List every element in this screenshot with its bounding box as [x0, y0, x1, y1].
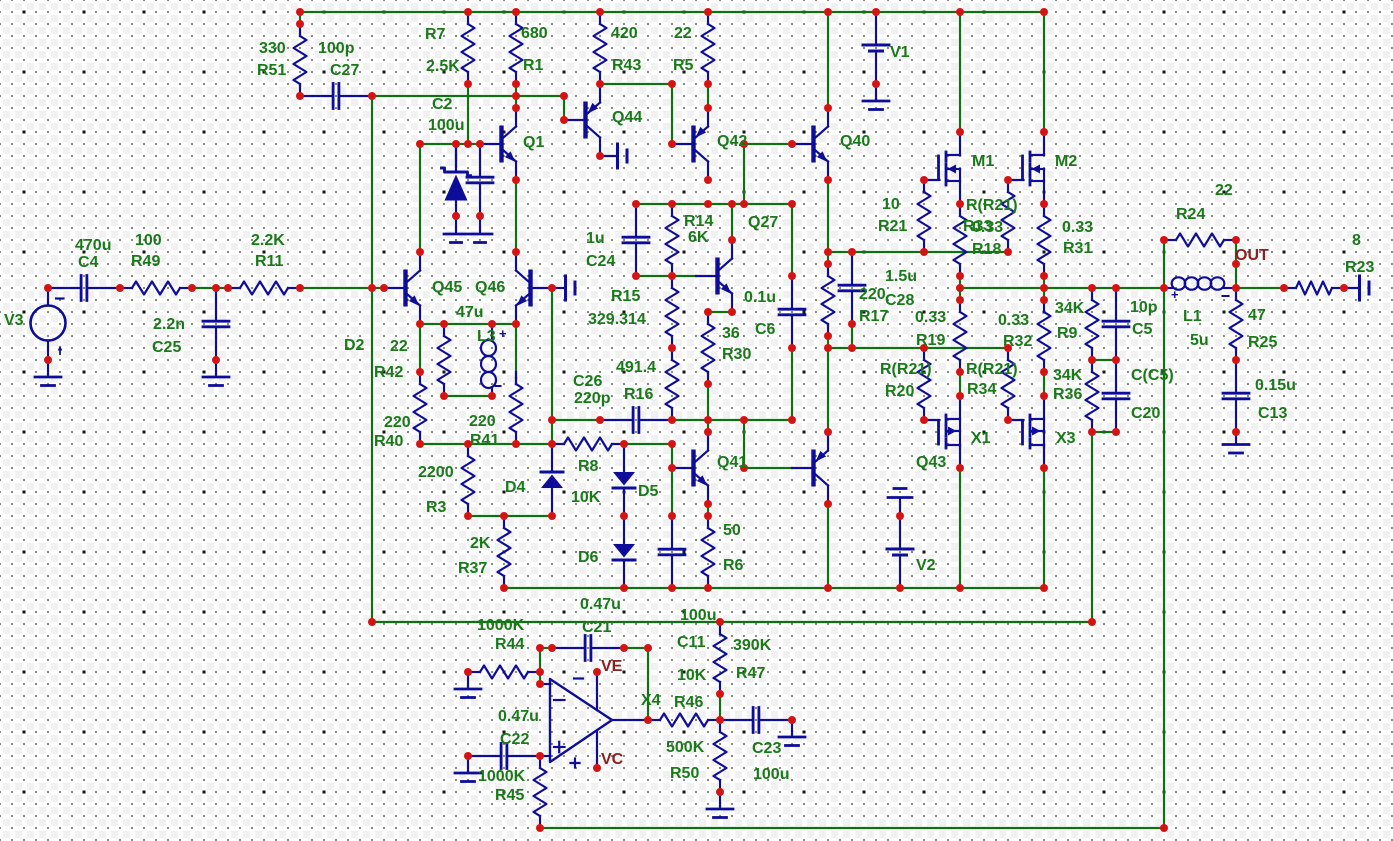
svg-text:0.47u: 0.47u: [498, 708, 539, 725]
svg-text:VC: VC: [601, 751, 624, 768]
svg-text:Q44: Q44: [612, 109, 642, 126]
svg-text:C13: C13: [1258, 405, 1287, 422]
svg-text:34K: 34K: [1055, 300, 1085, 317]
svg-text:6K: 6K: [688, 229, 709, 246]
svg-text:R18: R18: [972, 241, 1001, 258]
svg-text:X4: X4: [641, 692, 661, 709]
svg-text:10K: 10K: [571, 489, 601, 506]
svg-text:R1: R1: [523, 57, 544, 74]
svg-text:R49: R49: [131, 253, 160, 270]
svg-text:C24: C24: [586, 253, 615, 270]
svg-text:R8: R8: [578, 458, 599, 475]
svg-text:R7: R7: [425, 26, 446, 43]
svg-text:C21: C21: [582, 619, 611, 636]
svg-text:M1: M1: [972, 153, 994, 170]
svg-text:R43: R43: [612, 57, 641, 74]
svg-text:C26: C26: [573, 373, 602, 390]
svg-text:R46: R46: [674, 694, 703, 711]
svg-text:C6: C6: [755, 321, 776, 338]
svg-text:220: 220: [384, 414, 411, 431]
svg-text:R3: R3: [426, 499, 447, 516]
svg-text:R47: R47: [736, 665, 765, 682]
svg-text:1.5u: 1.5u: [885, 268, 917, 285]
svg-text:Q45: Q45: [432, 279, 462, 296]
svg-text:R20: R20: [885, 383, 914, 400]
svg-text:C27: C27: [330, 62, 359, 79]
svg-text:329.314: 329.314: [588, 311, 646, 328]
svg-text:C5: C5: [1132, 321, 1153, 338]
svg-text:Q1: Q1: [523, 134, 544, 151]
svg-text:22: 22: [674, 25, 692, 42]
svg-text:0.33: 0.33: [1062, 219, 1093, 236]
svg-text:R34: R34: [967, 381, 996, 398]
svg-text:470u: 470u: [75, 237, 111, 254]
svg-text:0.33: 0.33: [915, 309, 946, 326]
svg-text:330: 330: [259, 40, 286, 57]
svg-text:1000K: 1000K: [477, 617, 525, 634]
svg-text:100u: 100u: [680, 607, 716, 624]
svg-text:47: 47: [1248, 307, 1266, 324]
svg-text:Q46: Q46: [475, 279, 505, 296]
svg-text:C22: C22: [500, 731, 529, 748]
svg-text:L3: L3: [477, 328, 496, 345]
svg-text:420: 420: [611, 25, 638, 42]
svg-text:D4: D4: [505, 479, 526, 496]
svg-text:R(R21): R(R21): [966, 361, 1018, 378]
svg-text:220p: 220p: [574, 390, 611, 407]
svg-text:R40: R40: [374, 433, 403, 450]
svg-text:V1: V1: [890, 44, 910, 61]
svg-text:10K: 10K: [677, 667, 707, 684]
svg-text:D6: D6: [578, 549, 599, 566]
svg-text:R36: R36: [1053, 386, 1082, 403]
svg-text:2.5K: 2.5K: [426, 58, 460, 75]
svg-text:C20: C20: [1131, 405, 1160, 422]
svg-text:2.2K: 2.2K: [251, 232, 285, 249]
svg-text:D2: D2: [344, 337, 365, 354]
svg-text:Q41: Q41: [717, 454, 747, 471]
svg-text:R17: R17: [859, 308, 888, 325]
svg-text:491.4: 491.4: [616, 359, 656, 376]
svg-text:R32: R32: [1003, 333, 1032, 350]
svg-text:34K: 34K: [1053, 367, 1083, 384]
svg-text:L1: L1: [1183, 308, 1202, 325]
svg-text:C23: C23: [752, 740, 781, 757]
svg-text:220: 220: [859, 286, 886, 303]
svg-text:R23: R23: [1345, 259, 1374, 276]
svg-text:R41: R41: [470, 432, 499, 449]
svg-text:C2: C2: [432, 96, 453, 113]
svg-text:1u: 1u: [586, 230, 605, 247]
svg-text:R21: R21: [878, 218, 907, 235]
svg-text:OUT: OUT: [1235, 247, 1269, 264]
svg-text:0.15u: 0.15u: [1255, 377, 1296, 394]
svg-text:R9: R9: [1057, 325, 1078, 342]
svg-text:0.33: 0.33: [998, 312, 1029, 329]
svg-text:R45: R45: [495, 787, 524, 804]
svg-text:X1: X1: [971, 430, 991, 447]
svg-text:100: 100: [135, 232, 162, 249]
svg-text:R51: R51: [257, 62, 286, 79]
svg-text:+: +: [1171, 287, 1179, 302]
svg-text:680: 680: [521, 25, 548, 42]
svg-text:100u: 100u: [753, 766, 789, 783]
svg-text:100p: 100p: [318, 40, 355, 57]
svg-text:C25: C25: [152, 339, 181, 356]
svg-text:R19: R19: [916, 332, 945, 349]
svg-text:C11: C11: [677, 634, 706, 651]
svg-text:50: 50: [723, 522, 741, 539]
svg-text:Q43: Q43: [916, 454, 946, 471]
svg-text:22: 22: [390, 338, 408, 355]
svg-text:0.1u: 0.1u: [744, 289, 776, 306]
svg-text:R(R21): R(R21): [966, 197, 1018, 214]
svg-text:0.47u: 0.47u: [580, 596, 621, 613]
svg-text:R44: R44: [495, 636, 524, 653]
svg-text:D5: D5: [638, 483, 659, 500]
svg-text:2K: 2K: [470, 535, 491, 552]
svg-text:100u: 100u: [428, 117, 464, 134]
svg-text:22: 22: [1215, 182, 1233, 199]
svg-text:Q27: Q27: [748, 214, 778, 231]
svg-text:5u: 5u: [1190, 332, 1209, 349]
svg-text:36: 36: [722, 325, 740, 342]
svg-text:500K: 500K: [666, 739, 705, 756]
svg-text:R42: R42: [374, 364, 403, 381]
svg-text:M2: M2: [1055, 153, 1077, 170]
svg-text:390K: 390K: [733, 637, 772, 654]
svg-text:R30: R30: [722, 346, 751, 363]
svg-text:1000K: 1000K: [478, 768, 526, 785]
svg-text:10p: 10p: [1130, 299, 1158, 316]
svg-text:2200: 2200: [418, 464, 454, 481]
svg-text:10: 10: [882, 196, 900, 213]
svg-text:R24: R24: [1176, 206, 1205, 223]
svg-text:R50: R50: [670, 765, 699, 782]
svg-text:R31: R31: [1063, 240, 1092, 257]
svg-text:Q42: Q42: [717, 133, 747, 150]
svg-text:R5: R5: [673, 57, 694, 74]
svg-text:X3: X3: [1056, 430, 1076, 447]
svg-text:C(C5): C(C5): [1131, 367, 1174, 384]
svg-text:2.2n: 2.2n: [153, 316, 185, 333]
svg-text:VE: VE: [601, 658, 623, 675]
svg-text:R6: R6: [723, 557, 744, 574]
svg-text:47u: 47u: [456, 304, 484, 321]
svg-text:Q40: Q40: [840, 133, 870, 150]
svg-text:220: 220: [469, 413, 496, 430]
svg-text:8: 8: [1352, 232, 1361, 249]
svg-text:R(R21): R(R21): [880, 361, 932, 378]
svg-text:R37: R37: [458, 560, 487, 577]
svg-text:R25: R25: [1248, 334, 1277, 351]
svg-text:C4: C4: [78, 254, 99, 271]
svg-text:R15: R15: [611, 288, 640, 305]
svg-text:R11: R11: [255, 253, 284, 270]
svg-text:V3: V3: [4, 312, 24, 329]
svg-text:+: +: [499, 326, 507, 341]
svg-text:0.33: 0.33: [972, 219, 1003, 236]
svg-text:R16: R16: [624, 386, 653, 403]
svg-text:C28: C28: [885, 292, 914, 309]
svg-text:R14: R14: [684, 213, 713, 230]
svg-text:V2: V2: [916, 557, 936, 574]
